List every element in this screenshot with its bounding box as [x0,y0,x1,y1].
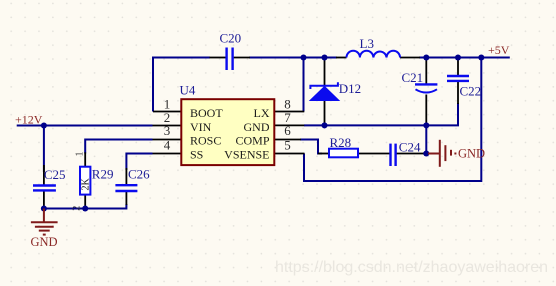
junction node +5V feedback [478,54,484,60]
svg-text:+5V: +5V [488,43,510,57]
pin R28 left [318,153,329,155]
pin C21 top [425,58,427,84]
svg-text:2K: 2K [81,178,92,191]
pin stub U4 pin8 [274,111,304,113]
capacitor C24 [391,140,421,167]
svg-text:ROSC: ROSC [190,134,221,148]
capacitor C25 [33,167,66,190]
svg-text:C21: C21 [402,70,424,85]
svg-text:BOOT: BOOT [190,106,223,120]
pin stub U4 pin6 [274,139,301,141]
svg-text:D12: D12 [339,81,361,96]
capacitor C22 [447,76,481,99]
capacitor C26 [115,167,150,192]
pin C22 top [457,58,459,76]
wire pin1 riser to C20 [153,58,210,112]
junction node R29 bottom [82,205,88,211]
pin stub U4 pin4 [153,153,182,155]
svg-text:C25: C25 [44,167,66,182]
junction node comp gnd [423,150,429,156]
svg-text:GND: GND [31,235,58,249]
svg-text:3: 3 [164,123,171,138]
pin C24 right [396,153,424,155]
resistor R28 [329,135,358,157]
svg-text:C26: C26 [128,167,150,182]
wire pin5 feedback bottom rail [304,58,481,182]
svg-text:R29: R29 [92,167,114,182]
capacitor C21 polarized [402,70,438,93]
junction node D12 bottom [321,122,327,128]
pin C20 right [234,57,250,59]
pin stub U4 pin1 [153,111,181,113]
pin stub U4 pin2 [153,125,182,127]
svg-text:C20: C20 [220,31,242,46]
junction node C21 bottom [423,122,429,128]
pin R29 top [84,152,86,166]
diode D12 [310,81,361,101]
svg-text:+12V: +12V [15,113,43,127]
svg-text:https://blog.csdn.net/zhaoyawe: https://blog.csdn.net/zhaoyaweihaoren [275,259,548,276]
svg-text:L3: L3 [360,36,374,51]
junction node C22 top [455,54,461,60]
pin C21 bottom [425,95,427,126]
svg-text:GND: GND [458,147,485,161]
svg-text:5: 5 [284,138,291,153]
pin C22 bottom [457,82,459,104]
resistor R29 [72,152,114,211]
svg-text:R28: R28 [330,135,352,150]
junction node gnd left [41,205,47,211]
pin C20 left [210,57,226,59]
pin stub U4 pin7 [274,124,304,126]
junction node D12 top [321,54,327,60]
pin R29 bottom [84,195,86,209]
ground symbol right [428,140,485,167]
junction node LX-C20 [300,54,306,60]
wire gnd rail pin7 [304,103,458,125]
wire C21 junction down to comp node [425,125,427,153]
svg-text:1: 1 [75,152,86,157]
svg-text:GND: GND [244,120,270,134]
wire LX rail to L3 [304,57,338,59]
wire pin6 to R28 [300,140,322,154]
wire +12V to pin 2 [17,125,153,127]
pin R28 right to C24 left [358,153,390,155]
pin stub U4 pin5 [274,153,304,155]
pin C26 bottom [125,192,127,205]
ground symbol left [31,209,58,250]
wire pin3 to R29 [85,140,152,154]
pin L3 right [400,57,420,59]
svg-text:SS: SS [190,147,203,161]
svg-text:LX: LX [254,106,270,120]
op-amp U4 (IC body) [180,83,275,166]
wire L3 right to +5V end [419,57,510,59]
wire C25 branch vertical [43,126,45,173]
wire pin4 to C26 [126,154,152,171]
svg-text:COMP: COMP [235,134,269,148]
pin C25 bottom [43,191,45,208]
svg-text:6: 6 [284,123,291,138]
pin stub U4 pin3 [153,139,182,141]
svg-text:VSENSE: VSENSE [224,147,269,161]
wire C20 right to node LX [249,57,304,59]
pin L3 left [336,57,347,59]
wire C24 to gnd junction [423,153,426,155]
capacitor C20 [220,31,242,71]
wire pin8 riser [303,58,305,112]
junction node +12V C25 [41,122,47,128]
inductor L3 [347,36,401,58]
junction node C21 top [423,54,429,60]
svg-text:4: 4 [164,138,171,153]
svg-text:2: 2 [72,206,83,211]
wire bottom-left gnd rail [44,204,127,209]
pin C26 top [125,168,127,184]
pin C25 top [43,165,45,185]
pin D12 vertical [324,58,326,126]
svg-text:C22: C22 [460,84,482,99]
svg-text:VIN: VIN [190,120,212,134]
svg-text:C24: C24 [399,140,421,155]
svg-text:U4: U4 [180,83,196,98]
